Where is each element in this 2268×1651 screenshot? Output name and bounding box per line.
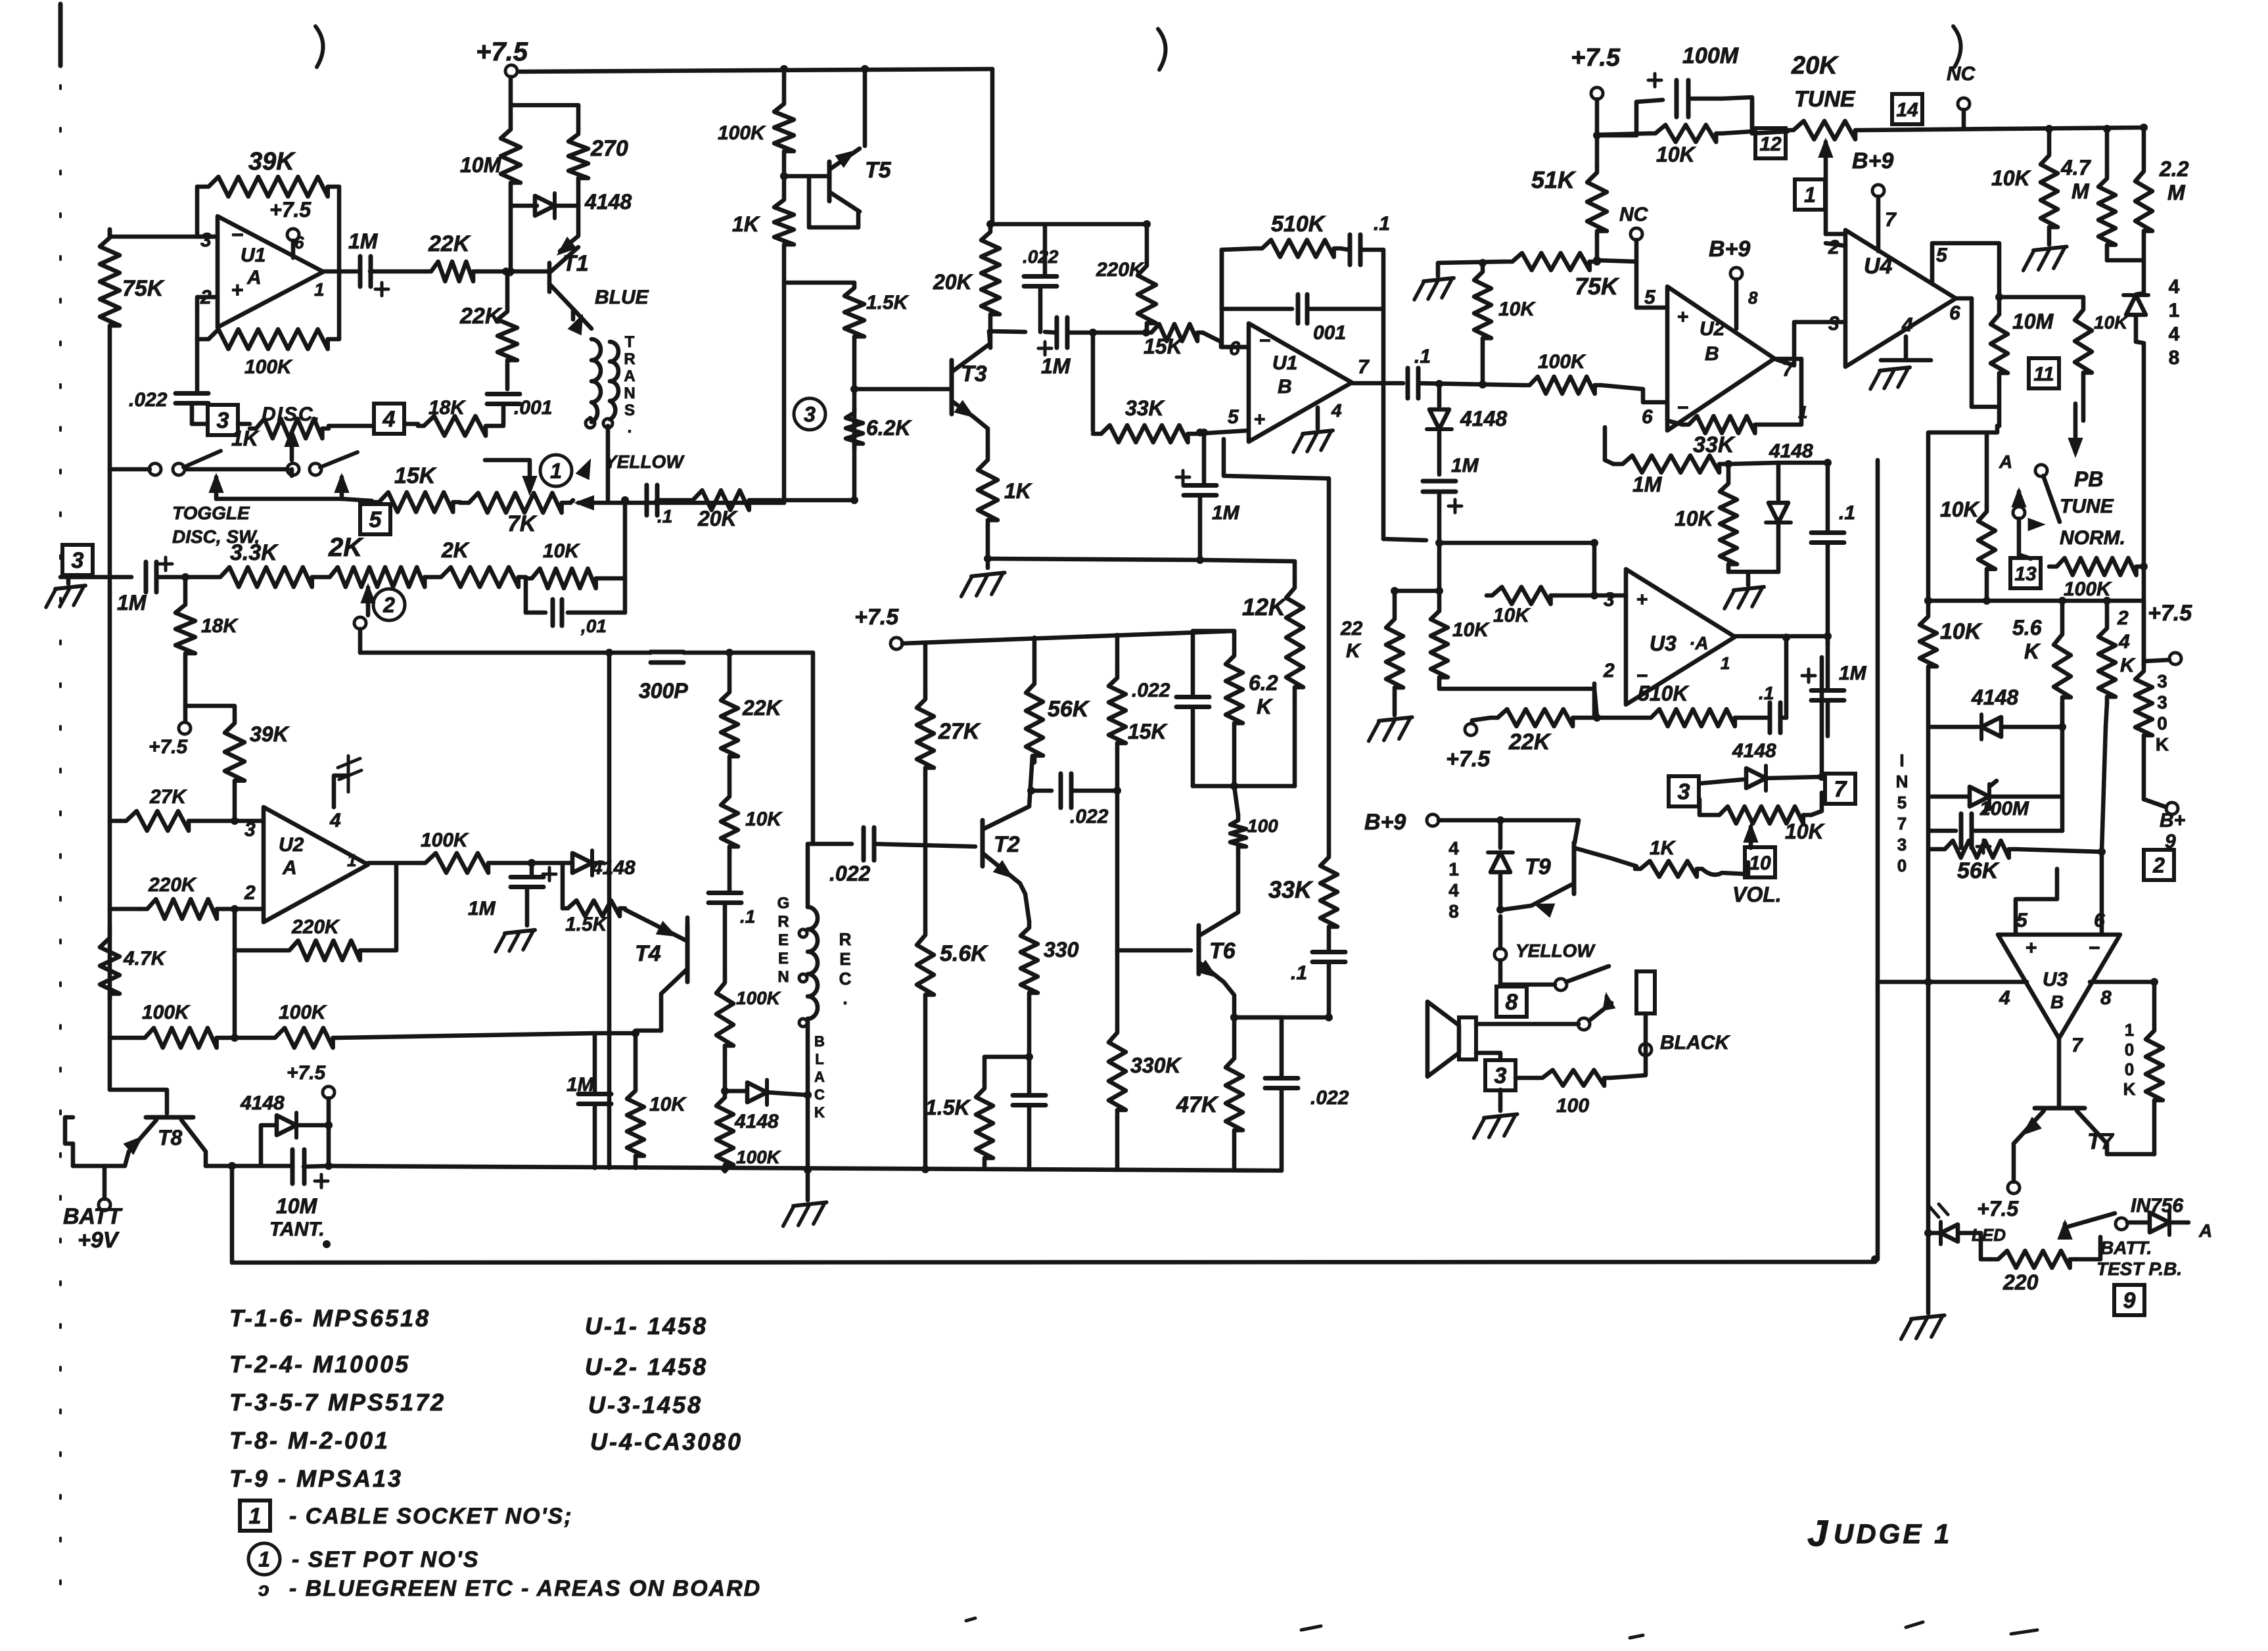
wire out to diode: [494, 861, 572, 866]
svg-text:10K: 10K: [1493, 605, 1531, 626]
svg-text:U4: U4: [1864, 254, 1893, 279]
wire T5 collector up: [863, 69, 868, 146]
ground (input): [66, 577, 71, 584]
svg-text:T1: T1: [563, 251, 589, 276]
wire long vertical x2934: [1928, 426, 1997, 611]
resistor 1.5K (T4 base): [563, 900, 625, 916]
wire U3A out down to 1M cap: [1826, 636, 1830, 687]
resistor 39K (U2A bias): [225, 718, 244, 786]
svg-text:1: 1: [347, 850, 356, 870]
svg-text:27K: 27K: [149, 786, 187, 808]
wire 300P row right: [729, 651, 813, 655]
svg-text:.022: .022: [1310, 1087, 1349, 1109]
diode 4148 (right rail): [2126, 295, 2146, 315]
resistor 1K (T5): [774, 195, 794, 250]
resistor 1K (T3): [978, 454, 998, 526]
svg-text:4: 4: [329, 810, 341, 831]
capacitor .022 (6.2K par): [1193, 629, 1234, 634]
svg-text:TEST P.B.: TEST P.B.: [2096, 1259, 2182, 1279]
svg-text:8: 8: [1748, 288, 1758, 308]
svg-text:BATT: BATT: [63, 1204, 123, 1229]
svg-text:T5: T5: [865, 158, 892, 183]
svg-text:1: 1: [258, 1548, 270, 1571]
wire 15K lead: [342, 499, 372, 501]
wire +7.5 bus to right: [519, 69, 992, 72]
svg-text:1M: 1M: [567, 1074, 595, 1096]
resistor 100K (T4 a): [716, 977, 733, 1052]
ground (spk): [1484, 1114, 1517, 1118]
wire test to diode: [2127, 1221, 2148, 1225]
wire 15K to pin6: [1203, 333, 1249, 347]
svg-text:UDGE 1: UDGE 1: [1834, 1518, 1952, 1549]
svg-text:K: K: [2123, 1079, 2136, 1099]
svg-text:10K: 10K: [1452, 619, 1490, 641]
op-amp U4: [1845, 230, 1956, 367]
svg-text:4148: 4148: [1460, 407, 1507, 430]
wire 56K to pin6 rail: [2015, 849, 2102, 852]
wire 15K row: [216, 497, 342, 501]
resistor 56K (ladder): [1032, 638, 1037, 677]
wire U3B pin4: [1928, 980, 2027, 985]
transistor T6: [1197, 925, 1201, 974]
capacitor .1 (fb series): [1348, 235, 1353, 265]
svg-text:I: I: [1899, 751, 1904, 770]
wire 20K to 6.2K node: [754, 498, 854, 503]
resistor 100K (low row a): [110, 1036, 138, 1040]
svg-text:9: 9: [2165, 831, 2176, 852]
wire det branch: [1728, 463, 1778, 464]
cable socket 9: [2114, 1285, 2144, 1315]
wire 27K down: [923, 774, 928, 929]
svg-text:BATT.: BATT.: [2100, 1238, 2152, 1258]
svg-text:22K: 22K: [459, 304, 503, 329]
wire 10K to pin3: [1556, 593, 1626, 598]
op-amp U1B: [1249, 323, 1352, 442]
svg-text:47K: 47K: [1176, 1092, 1219, 1117]
resistor 39K (U1A feedback): [197, 177, 339, 197]
pot 10K (vol): [1700, 799, 1711, 815]
wire drop x927: [607, 653, 612, 1168]
svg-text:1K: 1K: [1004, 479, 1033, 503]
svg-text:3: 3: [1604, 589, 1615, 611]
svg-text:39K: 39K: [250, 722, 290, 746]
wire norm row: [2140, 563, 2148, 570]
capacitor 10M TANT: [290, 1150, 295, 1184]
svg-text:.001: .001: [514, 397, 552, 419]
wire 100K norm down: [2142, 368, 2146, 665]
svg-text:PB: PB: [2074, 467, 2103, 491]
resistor 1K (T9): [1635, 861, 1702, 877]
capacitor 1M (pin5): [1202, 432, 1207, 484]
wire coil top: [806, 844, 810, 907]
cable socket 3 (spk): [1485, 1060, 1516, 1090]
svg-text:.1: .1: [1414, 346, 1431, 367]
svg-text:U3: U3: [1650, 632, 1677, 655]
resistor 10K (U3A gnd leg): [1431, 605, 1448, 684]
switch batt test: [2058, 1221, 2071, 1239]
cable socket 8: [1496, 987, 1527, 1017]
svg-text:.: .: [628, 419, 632, 436]
transistor T9: [1572, 843, 1577, 894]
wire U4 legs down: [1997, 379, 2002, 426]
wire 100M to 10K: [1722, 97, 1752, 131]
wire 12K bottom: [1293, 697, 1297, 786]
svg-text:3: 3: [1494, 1063, 1507, 1088]
svg-text:2.2: 2.2: [2159, 157, 2189, 181]
svg-text:.1: .1: [740, 906, 755, 927]
resistor 47K: [1226, 1052, 1243, 1137]
power +7.5 (U3A): [1472, 718, 1491, 723]
wire disc row c: [406, 422, 418, 427]
svg-text:U2: U2: [279, 834, 304, 856]
ground (75K): [1423, 278, 1454, 281]
cable socket 5: [360, 504, 390, 534]
resistor 18K (disc): [418, 416, 492, 436]
svg-text:75K: 75K: [1575, 273, 1620, 300]
wire coil bottom: [806, 1019, 810, 1095]
scan arc mark 2: [1158, 29, 1166, 70]
svg-text:1M: 1M: [1212, 502, 1240, 524]
connector pin rect: [1636, 971, 1655, 1013]
diode 4148 (right mid): [1926, 672, 1931, 727]
svg-text:.1: .1: [1839, 502, 1855, 524]
svg-text:270: 270: [590, 136, 628, 161]
op-amp U2B: [1667, 287, 1774, 430]
resistor 6.2K (osc): [846, 407, 863, 449]
wire 39K feedback left: [197, 187, 218, 237]
svg-text:3.3K: 3.3K: [230, 540, 279, 565]
svg-text:10K: 10K: [2094, 312, 2129, 333]
svg-text:R: R: [777, 913, 789, 931]
svg-text:20K: 20K: [697, 507, 739, 530]
svg-text:5: 5: [1897, 793, 1907, 812]
wire pin6 rail up: [2102, 727, 2106, 852]
set pot 3 marker: [794, 398, 825, 430]
resistor 22K (series): [426, 262, 478, 281]
svg-text:7: 7: [1358, 356, 1370, 378]
wire 47K to bus: [1232, 1137, 1237, 1170]
wire T3 emitter to 1K: [986, 429, 990, 454]
cable socket 12: [1755, 128, 1786, 158]
wire 22K gnd leg: [1393, 591, 1397, 613]
svg-text:B+9: B+9: [1709, 237, 1750, 262]
svg-text:- BLUEGREEN ETC - AREAS ON BOA: - BLUEGREEN ETC - AREAS ON BOARD: [289, 1576, 761, 1601]
resistor 20K (row5): [687, 490, 754, 510]
svg-text:.1: .1: [1759, 683, 1774, 703]
svg-text:.1: .1: [1374, 213, 1390, 235]
wire U1B feedback left: [1222, 250, 1249, 347]
svg-text:BLUE: BLUE: [595, 287, 649, 308]
svg-text:3: 3: [217, 408, 229, 433]
svg-text:2: 2: [1603, 660, 1615, 682]
transistor T7: [2035, 1106, 2085, 1111]
wire T2 collector chain: [1029, 756, 1032, 806]
resistor 22K (T1 base lower): [505, 274, 510, 306]
svg-text:10K: 10K: [1940, 619, 1983, 644]
svg-text:100K: 100K: [244, 356, 293, 378]
resistor 330K (right): [2135, 665, 2152, 741]
capacitor 1M (U3A out): [1811, 688, 1844, 693]
svg-text:22K: 22K: [742, 696, 783, 720]
wire 75K left to gnd: [1438, 262, 1505, 276]
svg-text:K: K: [1346, 640, 1362, 662]
diode IN756A: [2150, 1213, 2169, 1232]
svg-text:56K: 56K: [1957, 858, 2000, 883]
wiper (tune): [1819, 139, 1832, 157]
svg-text:1M: 1M: [1041, 354, 1071, 378]
capacitor .001 (U1B fb): [1296, 294, 1301, 323]
svg-text:1: 1: [249, 1504, 262, 1529]
wire 7K wiper line: [576, 496, 593, 509]
pot 7K: [460, 493, 570, 513]
svg-text:K: K: [814, 1104, 825, 1121]
power +7.5 term (T8): [323, 1086, 335, 1098]
wire 18K to +7.5/39K: [183, 659, 188, 706]
resistor 100K (low row b): [269, 1028, 338, 1048]
wire top bus corner down: [990, 69, 995, 224]
wire U4 pin5 box: [1932, 243, 1999, 297]
svg-text:+7.5: +7.5: [1977, 1197, 2019, 1221]
wire par bottom: [1232, 730, 1237, 786]
svg-text:- SET POT NO'S: - SET POT NO'S: [292, 1547, 479, 1572]
svg-text:.022: .022: [829, 862, 870, 885]
resistor 15K (ladder): [1115, 635, 1120, 672]
wire 330K top: [2142, 601, 2146, 665]
wire +7.5 down: [1595, 99, 1600, 167]
resistor 10K (det): [1720, 476, 1737, 572]
svg-text:2: 2: [2152, 854, 2165, 877]
op-amp U2A: [264, 807, 368, 922]
wire det to pin3 line: [1439, 541, 1594, 546]
svg-text:18K: 18K: [201, 615, 239, 637]
svg-text:10K: 10K: [1785, 820, 1826, 843]
svg-text:2: 2: [1828, 237, 1840, 258]
svg-text:1M: 1M: [468, 898, 496, 919]
resistor 510K (U1B fb): [1255, 240, 1341, 257]
terminal BLACK: [1640, 1044, 1652, 1056]
svg-text:T9: T9: [1525, 854, 1551, 879]
wire input left: [60, 575, 131, 580]
svg-text:56K: 56K: [1048, 697, 1090, 722]
svg-text:2: 2: [2117, 607, 2129, 629]
wire T8 emitter left: [73, 1164, 125, 1169]
resistor 4.7K: [108, 925, 112, 933]
svg-text:G: G: [777, 895, 790, 912]
wire LED left: [1928, 1231, 1941, 1236]
capacitor .1 (U3A in): [1811, 530, 1844, 535]
capacitor 100M (right): [1926, 797, 1931, 831]
wire 15K down to T6 base: [1115, 749, 1120, 791]
wire to toggle switch: [110, 467, 150, 472]
cable socket 11: [2029, 358, 2059, 388]
wire 270 top lead: [576, 105, 581, 129]
wiper (vol): [1744, 824, 1757, 842]
diode 4148 (U2A out): [572, 853, 592, 873]
svg-text:4.7K: 4.7K: [123, 948, 167, 969]
power +7.5 term (U2A): [179, 722, 191, 734]
wire yellow to switch: [1498, 960, 1503, 985]
wire T6 emitter node: [1232, 1016, 1237, 1052]
wire bus segment right: [921, 1165, 929, 1173]
wire U2B fb loop: [1774, 357, 1801, 361]
resistor 100K (U2A out): [419, 853, 494, 873]
wiper stub a: [210, 475, 223, 492]
svg-text:100K: 100K: [1538, 351, 1586, 373]
wire +7.5 bus (ladder): [891, 638, 902, 649]
resistor 10K (switch leg): [1985, 434, 1989, 506]
svg-text:M: M: [2071, 179, 2090, 203]
wire mid row y914: [1928, 599, 2144, 603]
resistor 22K (U3A): [1386, 613, 1403, 694]
op-amp U3A: [1626, 569, 1735, 705]
resistor 1.5K (osc): [845, 283, 864, 342]
svg-text:1: 1: [1721, 653, 1730, 673]
wire bottom bus: [329, 1166, 1282, 1171]
wire pin2 loop: [197, 297, 218, 339]
wire 10K to right: [602, 576, 625, 581]
wire 10M to corner: [1997, 424, 1999, 429]
svg-text:3: 3: [1897, 835, 1907, 854]
coil REC: [808, 907, 818, 1019]
cable socket 3 (input): [62, 545, 93, 575]
transistor T2: [981, 820, 985, 866]
wire pin5 to 10K leg: [1999, 297, 2083, 304]
svg-text:.022: .022: [1023, 246, 1059, 267]
svg-text:11: 11: [2033, 363, 2054, 385]
svg-text:−: −: [1677, 397, 1689, 419]
resistor 510K (U3A fb): [1643, 709, 1743, 726]
svg-text:5: 5: [1644, 287, 1656, 308]
svg-text:T3: T3: [961, 361, 987, 386]
resistor 4.7M: [2105, 129, 2110, 172]
resistor 220K (U2A pin2): [110, 907, 141, 912]
resistor 10K (tune in): [1650, 125, 1722, 142]
svg-text:3: 3: [1678, 779, 1690, 804]
svg-text:10: 10: [1749, 852, 1771, 874]
capacitor 1M (T3 out): [1055, 317, 1059, 348]
wire 220K bottom: [1146, 329, 1147, 333]
svg-text:1: 1: [550, 459, 562, 483]
svg-text:1K: 1K: [231, 427, 260, 450]
svg-text:15K: 15K: [394, 463, 437, 488]
wire input to 3.3K: [156, 575, 212, 580]
cable socket 7: [1825, 774, 1855, 804]
wire disc row b: [329, 424, 372, 429]
resistor 10K (right mid): [1920, 611, 1937, 672]
ground (U1B pin4): [1303, 430, 1333, 434]
resistor 10K (tune out): [1750, 103, 1755, 133]
wire diode node up: [1820, 657, 1824, 777]
wire 33K fb to pin6: [1667, 421, 1682, 425]
svg-text:U1: U1: [241, 244, 266, 266]
wire 27K to pin3: [195, 819, 264, 824]
svg-text:20K: 20K: [1791, 52, 1839, 80]
svg-text:K: K: [2024, 639, 2041, 663]
wire low row mid: [223, 1036, 269, 1040]
transformer T1 coils: [591, 339, 601, 422]
svg-text:E: E: [778, 950, 789, 967]
resistor 2K a: [321, 567, 434, 587]
ground (T3): [971, 572, 1005, 576]
svg-text:22K: 22K: [1508, 730, 1552, 755]
svg-text:7: 7: [2071, 1035, 2083, 1056]
transistor T5: [784, 174, 829, 179]
terminal YELLOW: [1494, 948, 1506, 960]
wire U4 pin2 from tune wiper: [1826, 243, 1845, 246]
resistor 27K (U2A in): [110, 819, 120, 824]
svg-text:A: A: [2198, 1221, 2212, 1241]
wire 24K bottom: [2060, 703, 2065, 797]
wire socket3 down: [1498, 1090, 1503, 1111]
wire 4.7M/2.2M join: [2105, 251, 2110, 260]
svg-text:330K: 330K: [1130, 1054, 1182, 1077]
ground (22K U3A): [1379, 717, 1412, 721]
svg-text:2: 2: [244, 882, 256, 904]
svg-text:NORM.: NORM.: [2060, 527, 2125, 549]
wire 20K to T3 collector: [988, 322, 993, 348]
wire 33K to pin5: [1196, 430, 1249, 434]
capacitor 1M (U2A out): [530, 863, 534, 875]
svg-text:4148: 4148: [1971, 686, 2018, 709]
svg-text:2K: 2K: [328, 533, 364, 562]
resistor 220K (osc): [1138, 260, 1156, 329]
wire left rail (75K down): [108, 334, 112, 1029]
wire U1B pin4 ground: [1316, 407, 1320, 429]
diode 4148 (U2B det): [1776, 463, 1781, 500]
svg-text:.022: .022: [129, 389, 168, 411]
svg-text:.: .: [843, 988, 847, 1008]
svg-text:A: A: [1999, 452, 2012, 472]
ground (tune): [2033, 246, 2067, 250]
svg-text:3: 3: [2157, 692, 2167, 712]
svg-text:NC: NC: [1619, 204, 1649, 225]
svg-text:B: B: [814, 1033, 825, 1050]
op-amp U3B (down): [1998, 935, 2120, 1038]
svg-text:·A: ·A: [1689, 633, 1709, 653]
capacitor .022 (T2 in): [813, 842, 852, 847]
svg-text:K: K: [2120, 655, 2136, 676]
svg-text:1: 1: [2125, 1020, 2134, 1040]
svg-text:4: 4: [1448, 880, 1459, 900]
svg-text:E: E: [778, 931, 789, 949]
svg-text:S: S: [624, 402, 635, 419]
wire 100K to 1K: [782, 156, 787, 195]
svg-text:10K: 10K: [1675, 507, 1715, 530]
svg-text:3: 3: [2157, 671, 2167, 691]
svg-text:C: C: [839, 969, 852, 988]
resistor 6.2K (par): [1226, 649, 1243, 730]
svg-text:4: 4: [1448, 838, 1459, 858]
svg-text:1M: 1M: [348, 229, 379, 253]
svg-text:6.2: 6.2: [1249, 671, 1278, 695]
svg-text:1K: 1K: [1650, 837, 1677, 859]
resistor 1M (U2B det): [1613, 455, 1728, 473]
svg-text:YELLOW: YELLOW: [605, 452, 685, 472]
svg-text:1K: 1K: [732, 212, 761, 236]
resistor 10K (row): [526, 569, 602, 588]
svg-text:1: 1: [2169, 300, 2180, 321]
svg-text:6: 6: [2094, 910, 2105, 931]
wire 18K input branch: [183, 577, 188, 599]
resistor 5.6K (ladder): [917, 929, 934, 1000]
capacitor .1 (U3A fb): [1768, 703, 1772, 733]
cable socket 10: [1745, 847, 1775, 877]
svg-text:T-3-5-7 MPS5172: T-3-5-7 MPS5172: [229, 1389, 446, 1416]
svg-text:5: 5: [369, 507, 382, 532]
svg-text:15K: 15K: [1144, 335, 1184, 358]
svg-text:22K: 22K: [428, 231, 471, 256]
pot 1K (disc): [250, 419, 329, 438]
